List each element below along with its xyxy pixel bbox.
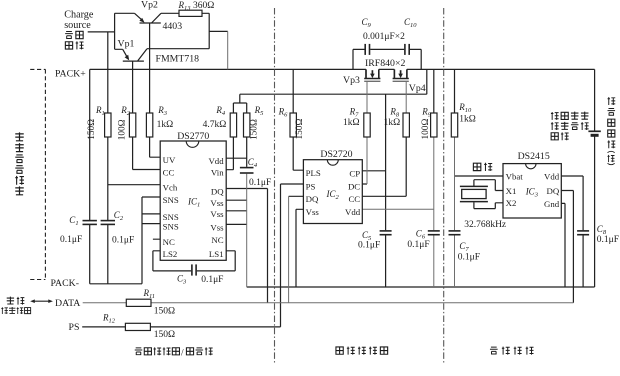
svg-text:0.1μF: 0.1μF — [201, 275, 223, 285]
svg-text:0.001μF×2: 0.001μF×2 — [363, 32, 405, 42]
svg-text:DC: DC — [348, 182, 360, 192]
svg-text:0.1μF: 0.1μF — [60, 235, 82, 245]
svg-text:DS2415: DS2415 — [518, 151, 550, 162]
svg-text:SNS: SNS — [163, 195, 179, 205]
svg-text:DS2720: DS2720 — [320, 149, 352, 160]
svg-text:0.1μF: 0.1μF — [458, 253, 480, 263]
svg-text:0.1μF: 0.1μF — [112, 236, 134, 246]
svg-text:Vp4: Vp4 — [409, 83, 426, 94]
svg-text:100Ω: 100Ω — [421, 119, 431, 140]
svg-text:DQ: DQ — [546, 186, 559, 196]
svg-text:1kΩ: 1kΩ — [157, 120, 174, 130]
svg-text:Vbat: Vbat — [506, 171, 524, 181]
svg-text:FMMT718: FMMT718 — [156, 54, 200, 65]
svg-text:DATA: DATA — [55, 298, 80, 309]
svg-text:NC: NC — [211, 235, 223, 245]
svg-text:PACK+: PACK+ — [55, 68, 86, 79]
svg-text:0.1μF: 0.1μF — [407, 240, 429, 250]
svg-text:DQ: DQ — [306, 194, 319, 204]
svg-text:150Ω: 150Ω — [250, 119, 260, 140]
svg-text:150Ω: 150Ω — [87, 119, 97, 140]
svg-text:Vin: Vin — [211, 168, 224, 178]
svg-text:Vss: Vss — [210, 209, 224, 219]
svg-text:CC: CC — [348, 194, 360, 204]
svg-text:360Ω: 360Ω — [193, 1, 214, 11]
svg-text:Vp3: Vp3 — [343, 75, 360, 86]
svg-text:4.7kΩ: 4.7kΩ — [203, 120, 227, 130]
svg-text:PS: PS — [306, 182, 316, 192]
svg-text:DQ: DQ — [211, 187, 224, 197]
svg-text:Vss: Vss — [210, 198, 224, 208]
svg-text:IRF840×2: IRF840×2 — [365, 58, 405, 69]
svg-text:32.768kHz: 32.768kHz — [464, 220, 506, 230]
svg-text:PLS: PLS — [306, 168, 321, 178]
svg-text:1kΩ: 1kΩ — [459, 115, 476, 125]
svg-text:CP: CP — [349, 168, 360, 178]
svg-text:Vdd: Vdd — [345, 207, 361, 217]
svg-text:DS2770: DS2770 — [177, 131, 209, 142]
svg-text:PACK-: PACK- — [51, 278, 80, 289]
svg-text:Vss: Vss — [210, 222, 224, 232]
svg-text:100Ω: 100Ω — [118, 119, 128, 140]
svg-text:Gnd: Gnd — [544, 199, 560, 209]
svg-text:150Ω: 150Ω — [154, 306, 175, 316]
svg-text:1kΩ: 1kΩ — [343, 118, 360, 128]
svg-text:Vdd: Vdd — [208, 156, 224, 166]
svg-text:Charge: Charge — [64, 10, 94, 21]
svg-text:Vch: Vch — [163, 183, 178, 193]
svg-text:1kΩ: 1kΩ — [384, 118, 401, 128]
svg-text:NC: NC — [163, 237, 175, 247]
svg-text:SNS: SNS — [163, 212, 179, 222]
svg-text:0.1μF: 0.1μF — [358, 241, 380, 251]
svg-text:150Ω: 150Ω — [154, 330, 175, 340]
svg-text:CC: CC — [163, 168, 175, 178]
svg-text:X2: X2 — [506, 198, 517, 208]
svg-text:0.1μF: 0.1μF — [597, 235, 619, 245]
svg-text:LS1: LS1 — [209, 249, 224, 259]
svg-text:X1: X1 — [506, 186, 517, 196]
svg-text:150Ω: 150Ω — [295, 119, 305, 140]
svg-text:/: / — [181, 348, 184, 358]
svg-text:4403: 4403 — [163, 21, 183, 32]
svg-text:Vdd: Vdd — [544, 171, 560, 181]
svg-text:0.1μF: 0.1μF — [249, 178, 271, 188]
svg-text:Vp1: Vp1 — [118, 38, 135, 49]
svg-text:PS: PS — [69, 322, 80, 333]
svg-text:UV: UV — [163, 155, 176, 165]
svg-text:source: source — [64, 20, 91, 31]
svg-text:SNS: SNS — [163, 222, 179, 232]
svg-text:Vp2: Vp2 — [141, 0, 158, 10]
svg-text:Vss: Vss — [306, 207, 320, 217]
svg-text:LS2: LS2 — [163, 249, 178, 259]
